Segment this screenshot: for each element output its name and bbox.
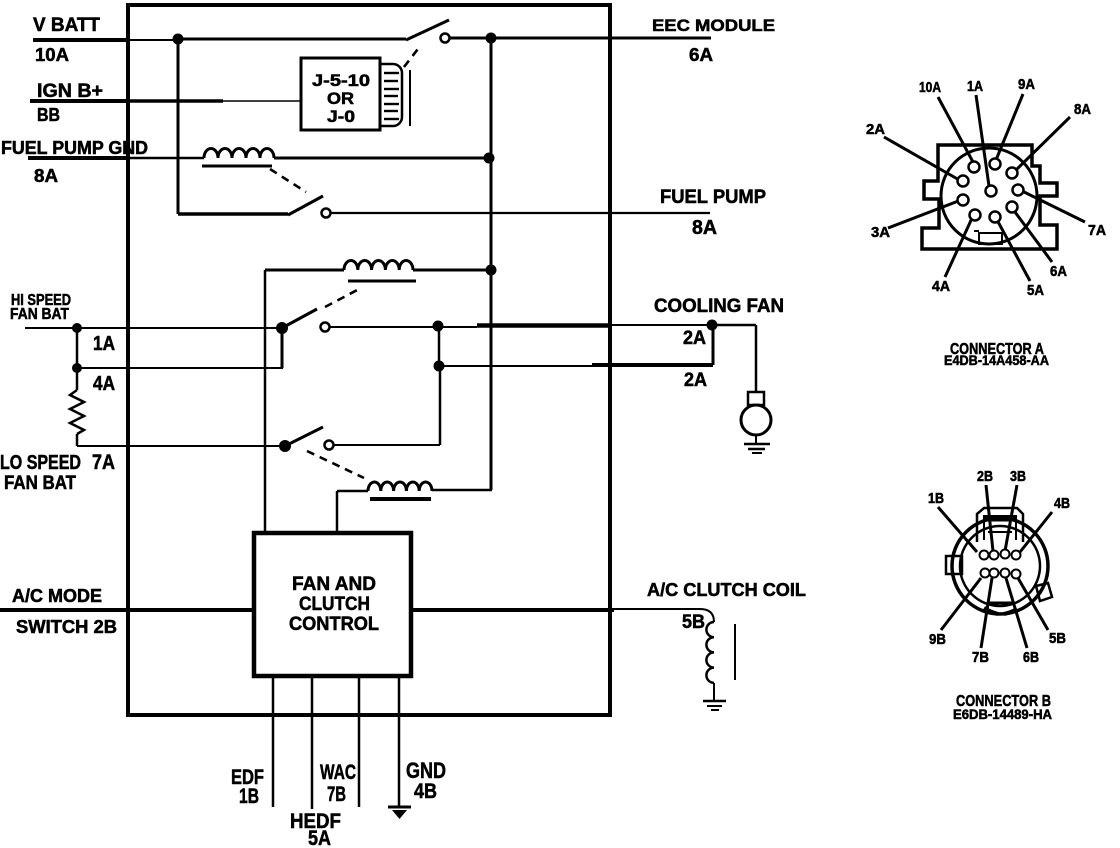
svg-text:1B: 1B (239, 785, 259, 808)
svg-text:9A: 9A (1018, 77, 1035, 93)
svg-text:10A: 10A (919, 80, 941, 96)
svg-text:9B: 9B (929, 632, 946, 648)
svg-text:A/C MODE: A/C MODE (12, 585, 102, 606)
svg-text:2A: 2A (683, 328, 706, 349)
svg-text:5B: 5B (682, 612, 705, 633)
svg-text:8A: 8A (692, 217, 717, 239)
svg-text:10A: 10A (35, 44, 69, 65)
svg-text:FAN BAT: FAN BAT (10, 306, 69, 323)
svg-text:FUEL PUMP: FUEL PUMP (660, 187, 766, 208)
svg-text:6A: 6A (689, 45, 713, 65)
svg-text:4B: 4B (414, 780, 437, 803)
svg-text:FAN BAT: FAN BAT (4, 473, 76, 494)
svg-text:4B: 4B (1054, 496, 1070, 512)
svg-text:8A: 8A (1074, 102, 1091, 118)
svg-text:FAN AND: FAN AND (292, 574, 376, 595)
svg-text:FUEL PUMP GND: FUEL PUMP GND (1, 138, 148, 158)
svg-text:2A: 2A (866, 122, 886, 138)
svg-text:COOLING FAN: COOLING FAN (654, 296, 784, 317)
svg-text:E6DB-14489-HA: E6DB-14489-HA (953, 706, 1052, 722)
svg-text:CONTROL: CONTROL (289, 614, 379, 635)
svg-text:4A: 4A (93, 373, 115, 395)
svg-text:8A: 8A (34, 166, 58, 186)
svg-text:6B: 6B (1023, 650, 1039, 666)
svg-text:2B: 2B (977, 469, 993, 485)
svg-text:2A: 2A (684, 370, 707, 391)
svg-text:7B: 7B (972, 650, 989, 666)
svg-text:OR: OR (327, 89, 354, 108)
svg-text:1B: 1B (928, 491, 944, 507)
svg-text:5A: 5A (1027, 283, 1044, 299)
svg-text:1A: 1A (967, 79, 983, 95)
svg-text:7A: 7A (92, 451, 115, 474)
svg-text:J-0: J-0 (327, 107, 355, 126)
svg-text:1A: 1A (93, 333, 115, 355)
svg-text:CLUTCH: CLUTCH (299, 594, 370, 615)
svg-text:EEC MODULE: EEC MODULE (652, 16, 775, 35)
svg-text:LO SPEED: LO SPEED (0, 452, 81, 474)
svg-text:V BATT: V BATT (33, 15, 100, 36)
svg-text:BB: BB (37, 105, 60, 125)
svg-text:E4DB-14A458-AA: E4DB-14A458-AA (944, 352, 1049, 368)
svg-text:3A: 3A (871, 225, 891, 241)
svg-text:4A: 4A (932, 279, 951, 295)
svg-text:WAC: WAC (320, 760, 356, 784)
svg-text:7B: 7B (327, 783, 346, 806)
svg-text:SWITCH 2B: SWITCH 2B (16, 616, 117, 637)
svg-text:6A: 6A (1050, 264, 1067, 280)
svg-text:J-5-10: J-5-10 (312, 71, 370, 90)
svg-text:A/C CLUTCH COIL: A/C CLUTCH COIL (647, 579, 806, 600)
svg-text:3B: 3B (1010, 469, 1026, 485)
svg-text:7A: 7A (1088, 223, 1107, 239)
svg-text:5B: 5B (1049, 631, 1066, 647)
svg-text:5A: 5A (308, 827, 331, 848)
svg-text:IGN B+: IGN B+ (37, 81, 103, 102)
